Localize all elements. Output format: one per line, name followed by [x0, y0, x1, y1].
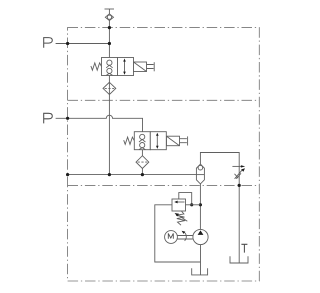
check valve CV2 body [196, 164, 204, 184]
valve V2 body left position (seat valve closed) [134, 132, 150, 150]
valve V1 body left position (seat valve closed) [102, 58, 118, 76]
valve V1 solenoid [134, 62, 147, 72]
valve V2 spring [124, 137, 135, 144]
wire pump suction [200, 245, 202, 275]
tank T1 (right) [230, 256, 248, 263]
wire V2 to filter F2 [141, 150, 143, 156]
wire P1 line [56, 43, 110, 45]
port label P2 [44, 113, 53, 123]
wire RV1 outlet to tank return [155, 205, 201, 262]
relief valve RV1 pilot line [179, 193, 192, 205]
valve V1 manual override [147, 65, 154, 69]
junction dot collector/border [66, 173, 69, 176]
wire V1 to filter F1 [108, 76, 110, 83]
wire through CV2 body [196, 174, 204, 176]
valve V2 body right position (through-flow) [150, 132, 166, 150]
junction dot P1/border [66, 42, 69, 45]
enclosure border (dash-dot manifold boundary) [68, 28, 260, 281]
junction dot collector/main [108, 173, 111, 176]
wire vent to check valve [108, 9, 110, 14]
port label P1 [44, 38, 53, 48]
pump P1 [193, 229, 208, 244]
valve V2 solenoid [167, 136, 180, 146]
filter F1 [103, 82, 116, 94]
junction dot P2/border [66, 117, 69, 120]
junction dot relief inlet / pump line [199, 203, 202, 206]
junction dot P1/main line [108, 42, 111, 45]
valve V2 manual override [180, 139, 187, 143]
wire CV2 top to throttle line [200, 153, 239, 264]
filter F2 [136, 156, 149, 169]
wire collector line to check valve CV2 [68, 174, 205, 176]
wire CV2 bottom to pump line [199, 184, 201, 230]
rotation direction arrow [184, 232, 186, 241]
relief valve RV1 body [172, 199, 186, 211]
tank T2 (suction, below pump) [192, 268, 208, 275]
wire F2 to collector line [141, 169, 143, 175]
junction dot throttle line / section line [238, 184, 241, 187]
relief valve RV1 spring (adjustable) [176, 211, 185, 225]
wire F1 down main line [108, 82, 110, 174]
wire P2 line with hop over main line [56, 115, 143, 131]
port label T [241, 244, 247, 252]
electric motor M1 [165, 231, 178, 244]
manifold section line 2 [68, 99, 260, 101]
throttle valve TH1 (adjustable restrictor) [232, 165, 241, 167]
wire RV1 inlet [186, 204, 201, 206]
junction dot collector/F2 [141, 173, 144, 176]
wire check valve down through border to valve V1 [108, 21, 110, 58]
vent bar (to atmosphere) [105, 8, 115, 10]
junction dot at border [108, 26, 111, 29]
junction dot pilot/inlet [190, 203, 193, 206]
valve V1 spring [91, 63, 102, 70]
valve V1 body right position (through-flow) [118, 58, 134, 76]
motor-pump shaft [177, 236, 193, 240]
manifold section line 3 [68, 184, 260, 186]
check valve CV1 (fill/vent, diamond with ball) [105, 14, 113, 21]
